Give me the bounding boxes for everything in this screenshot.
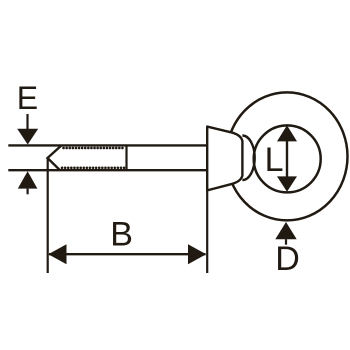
collar spherical cap arc <box>242 136 254 181</box>
svg-text:D: D <box>275 240 300 278</box>
E dimension upper arrow stem <box>26 114 28 130</box>
L dimension line <box>286 133 288 185</box>
B extension line left (from screw tip) <box>47 158 49 273</box>
thread end vertical line <box>125 145 127 170</box>
E dimension down arrowhead <box>17 129 38 145</box>
svg-text:E: E <box>17 80 38 116</box>
thread dots top row <box>64 147 126 150</box>
B left arrowhead <box>48 244 66 264</box>
outer ring circle (eye outer profile) <box>227 92 348 220</box>
E dimension up arrowhead <box>18 171 38 188</box>
L bottom arrowhead <box>277 176 297 191</box>
screw tip chevron <box>48 145 62 170</box>
svg-text:B: B <box>110 216 133 254</box>
D arrow stem stub <box>285 239 287 245</box>
B dimension line <box>49 253 206 255</box>
inner ring circle (eye hole) <box>254 125 321 192</box>
thread dots bottom row <box>62 167 126 170</box>
E dimension lower arrow stem stub <box>27 189 29 195</box>
B right arrowhead <box>188 244 206 264</box>
wire B extension line (right, through collar left edge) <box>206 127 208 273</box>
wire shaft top line <box>8 144 207 146</box>
wire shaft bottom line <box>8 169 207 171</box>
D dimension up arrowhead <box>275 222 296 239</box>
svg-text:L: L <box>265 141 284 179</box>
collar (conical boss), white fill occludes outer circle <box>207 127 242 191</box>
L top arrowhead <box>277 125 297 141</box>
